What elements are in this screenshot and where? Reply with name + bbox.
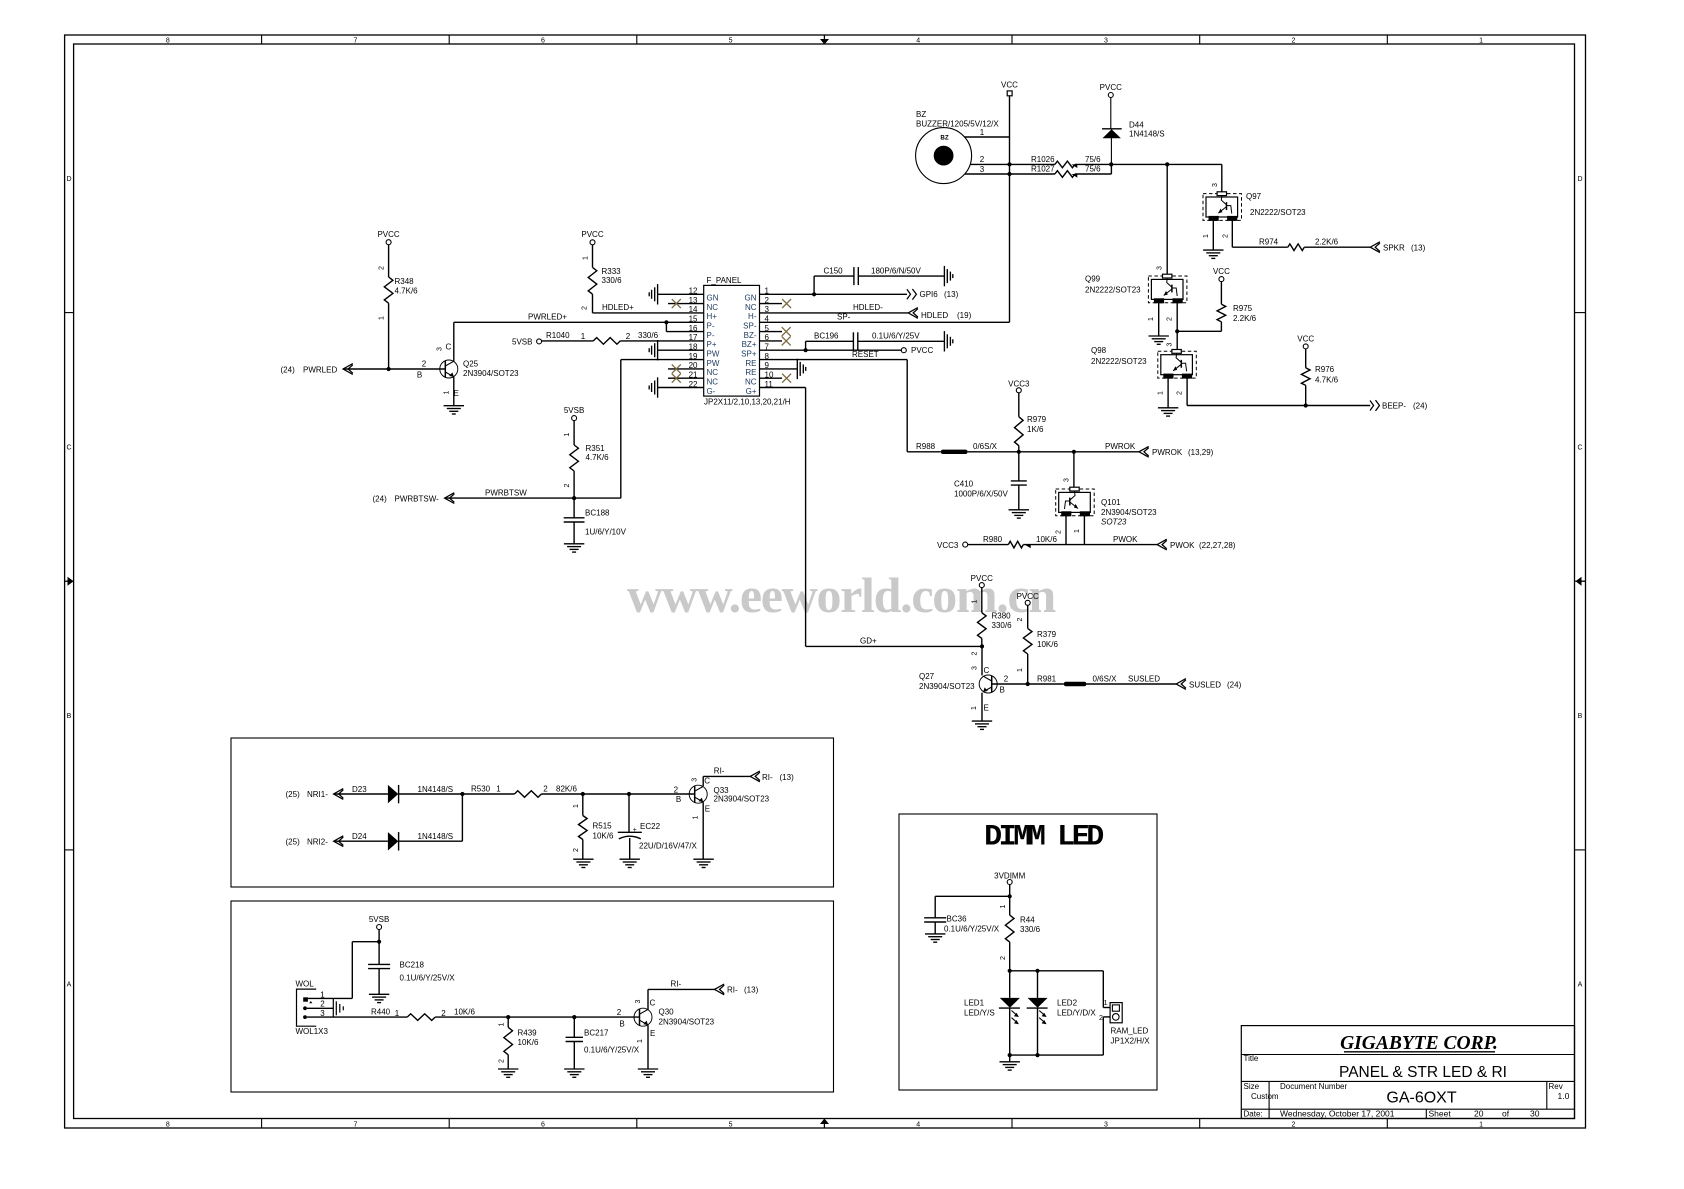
ground C410	[1009, 509, 1029, 511]
power PVCC (D44)	[1100, 83, 1122, 98]
svg-text:R988: R988	[916, 442, 936, 451]
svg-text:4.7K/6: 4.7K/6	[1315, 376, 1339, 385]
ground BC188	[564, 543, 584, 545]
svg-text:22U/D/16V/47/X: 22U/D/16V/47/X	[639, 842, 697, 851]
svg-text:(25): (25)	[286, 837, 301, 846]
junction Q99 collector branch	[1165, 162, 1169, 166]
svg-text:NC: NC	[745, 378, 757, 387]
svg-text:NRI2-: NRI2-	[307, 837, 328, 846]
svg-text:1000P/6/X/50V: 1000P/6/X/50V	[954, 489, 1008, 498]
svg-text:SP+: SP+	[741, 350, 757, 359]
junction buzzer pin3 net	[1007, 172, 1011, 176]
svg-text:Size: Size	[1244, 1082, 1260, 1091]
svg-text:7: 7	[353, 38, 357, 45]
wire 5VSB to BC218	[378, 930, 380, 965]
svg-text:NC: NC	[745, 303, 757, 312]
wire RAM_LED pin2 to LED cathodes	[1010, 1017, 1110, 1055]
port NRI2-	[286, 836, 344, 847]
svg-text:H-: H-	[748, 312, 757, 321]
svg-text:LED2: LED2	[1057, 998, 1078, 1007]
resistor R980	[968, 535, 1085, 548]
capacitor BC188	[564, 509, 627, 544]
svg-text:VCC: VCC	[1213, 267, 1230, 276]
wire SP- pin4	[760, 313, 1010, 323]
svg-text:1: 1	[693, 815, 700, 819]
svg-text:BZ: BZ	[916, 110, 926, 119]
svg-text:1N4148/S: 1N4148/S	[1129, 130, 1165, 139]
svg-text:PWRBTSW-: PWRBTSW-	[395, 494, 440, 503]
svg-text:2: 2	[1004, 674, 1009, 683]
Q99 pin 1 wire to ground	[1148, 303, 1159, 336]
svg-text:EC22: EC22	[640, 822, 661, 831]
svg-text:2N3904/SOT23: 2N3904/SOT23	[659, 1017, 715, 1026]
svg-text:Document Number: Document Number	[1280, 1082, 1347, 1091]
resistor R348	[379, 245, 419, 369]
Q101 pin 1 wire	[1074, 516, 1085, 545]
capacitor C410	[954, 452, 1027, 510]
capacitor BC196	[806, 332, 945, 351]
svg-text:PVCC: PVCC	[971, 574, 993, 583]
svg-text:3: 3	[437, 347, 444, 351]
svg-text:15: 15	[689, 315, 698, 324]
connector F_PANEL JP2X11	[689, 276, 791, 407]
svg-text:2: 2	[1055, 530, 1062, 534]
ground F_PANEL pin12	[657, 284, 659, 304]
Q33 base labels	[674, 786, 681, 804]
junction pin15/pin16	[664, 320, 668, 324]
svg-text:180P/6/N/50V: 180P/6/N/50V	[871, 266, 921, 275]
svg-text:5VSB: 5VSB	[369, 915, 389, 924]
svg-text:C: C	[984, 666, 990, 675]
port RI- (box1)	[750, 771, 794, 782]
svg-text:LED/Y/S: LED/Y/S	[964, 1008, 995, 1017]
power VCC (R976)	[1297, 335, 1314, 349]
svg-text:(19): (19)	[957, 311, 972, 320]
svg-text:1: 1	[379, 316, 386, 320]
svg-text:(24): (24)	[281, 365, 296, 374]
capacitor BC218	[368, 961, 455, 995]
ground BC218	[369, 993, 389, 995]
svg-text:(24): (24)	[373, 494, 388, 503]
svg-text:Title: Title	[1244, 1054, 1259, 1063]
svg-text:(24): (24)	[1413, 401, 1428, 410]
svg-text:2N3904/SOT23: 2N3904/SOT23	[919, 682, 975, 691]
svg-text:10K/6: 10K/6	[1037, 640, 1058, 649]
svg-text:SUSLED: SUSLED	[1189, 680, 1221, 689]
svg-text:0/6S/X: 0/6S/X	[1093, 674, 1118, 683]
svg-text:C: C	[66, 444, 71, 451]
wire G+ pin11 to GD+	[760, 388, 806, 647]
wire Q27 collector	[971, 646, 989, 675]
WOL pin2 wire	[307, 1007, 333, 1009]
svg-text:2N2222/SOT23: 2N2222/SOT23	[1250, 208, 1306, 217]
svg-text:1: 1	[1017, 668, 1024, 672]
Q99 pin 2 wire to Q98 collector	[1166, 303, 1177, 352]
svg-text:3: 3	[692, 778, 699, 782]
svg-text:F_PANEL: F_PANEL	[707, 276, 743, 285]
svg-text:2: 2	[617, 1008, 622, 1017]
transistor Q97	[1203, 192, 1306, 221]
svg-text:RI-: RI-	[727, 986, 738, 995]
transistor Q101	[1056, 487, 1157, 526]
svg-text:BC196: BC196	[814, 332, 839, 341]
wire Q27 emitter	[981, 693, 983, 722]
power PVCC (R379)	[1017, 592, 1039, 606]
svg-text:(13): (13)	[780, 773, 795, 782]
svg-text:1.0: 1.0	[1558, 1091, 1570, 1101]
svg-text:SUSLED: SUSLED	[1128, 674, 1160, 683]
svg-text:1: 1	[1104, 1000, 1108, 1007]
Q101 pin 2 wire	[1055, 516, 1066, 545]
svg-text:G+: G+	[746, 387, 757, 396]
wire VCC to buzzer pin1 and SP- net	[1009, 96, 1011, 322]
svg-text:R379: R379	[1037, 630, 1057, 639]
title block company name	[1340, 1033, 1498, 1054]
svg-text:of: of	[1502, 1109, 1510, 1119]
F_PANEL pin1 wire to GPI6	[760, 293, 908, 295]
svg-text:BZ-: BZ-	[744, 331, 757, 340]
wire Q33 collector RI-	[703, 767, 750, 786]
svg-text:BZ+: BZ+	[742, 340, 757, 349]
port SUSLED	[1176, 679, 1241, 690]
svg-text:2: 2	[1292, 1122, 1296, 1129]
wire PWOK	[1084, 535, 1157, 545]
svg-text:SP-: SP-	[837, 313, 851, 322]
wire Q30 emitter	[647, 1025, 649, 1069]
svg-text:7: 7	[353, 1122, 357, 1129]
svg-text:PWOK: PWOK	[1170, 541, 1195, 550]
svg-text:2N3904/SOT23: 2N3904/SOT23	[1101, 508, 1157, 517]
svg-text:2: 2	[564, 483, 571, 487]
svg-text:4.7K/6: 4.7K/6	[395, 287, 419, 296]
transistor Q98	[1091, 346, 1196, 378]
wire PWRBTSW-	[445, 488, 621, 498]
junction R380 / Q27 collector	[980, 644, 984, 648]
capacitor BC36	[924, 896, 1010, 934]
title block size/doc/rev	[1244, 1082, 1570, 1107]
svg-text:Q97: Q97	[1246, 192, 1262, 201]
svg-text:NC: NC	[707, 368, 719, 377]
svg-text:G-: G-	[707, 387, 716, 396]
svg-text:SPKR: SPKR	[1383, 243, 1405, 252]
svg-text:E: E	[650, 1029, 655, 1038]
svg-text:HDLED+: HDLED+	[602, 303, 634, 312]
svg-text:B: B	[676, 795, 681, 804]
svg-text:2N2222/SOT23: 2N2222/SOT23	[1091, 357, 1147, 366]
junction BC217 branch	[572, 1015, 576, 1019]
svg-text:JP1X2/H/X: JP1X2/H/X	[1111, 1036, 1151, 1045]
svg-text:R974: R974	[1259, 238, 1279, 247]
svg-text:R440: R440	[371, 1008, 391, 1017]
svg-text:PVCC: PVCC	[911, 346, 933, 355]
svg-text:PWRLED+: PWRLED+	[528, 313, 567, 322]
svg-text:2: 2	[1000, 956, 1007, 960]
svg-text:3: 3	[1212, 183, 1219, 187]
svg-text:RESET: RESET	[852, 350, 879, 359]
wire R974 to SPKR	[1304, 246, 1370, 248]
svg-text:2: 2	[499, 1059, 506, 1063]
svg-text:DIMM LED: DIMM LED	[984, 821, 1103, 855]
svg-text:2: 2	[1292, 38, 1296, 45]
Q97 pin 1 wire to ground	[1203, 220, 1214, 250]
svg-text:330/6: 330/6	[1020, 925, 1041, 934]
svg-text:0/6S/X: 0/6S/X	[973, 442, 998, 451]
svg-text:Q33: Q33	[714, 786, 730, 795]
svg-text:RI-: RI-	[671, 980, 682, 989]
svg-text:1: 1	[1074, 529, 1081, 533]
port SPKR	[1370, 242, 1425, 253]
resistor R976	[1301, 349, 1338, 406]
svg-text:RI-: RI-	[762, 773, 773, 782]
power PVCC (R380)	[971, 574, 993, 588]
WOL pin3 wire	[307, 1016, 407, 1018]
F_PANEL pin5 wire no-connect	[760, 327, 791, 336]
svg-text:R380: R380	[992, 612, 1012, 621]
capacitor EC22	[618, 794, 698, 859]
svg-text:E: E	[984, 704, 989, 713]
svg-text:2: 2	[1166, 317, 1173, 321]
svg-text:PWROK: PWROK	[1152, 448, 1183, 457]
svg-text:LED1: LED1	[964, 998, 985, 1007]
svg-text:D: D	[66, 176, 71, 183]
svg-text:1: 1	[980, 128, 985, 137]
junction C150 branch	[812, 292, 816, 296]
wire Q99 collector	[1156, 164, 1167, 276]
svg-text:2: 2	[543, 784, 548, 793]
resistor R988 (0 ohm)	[907, 442, 997, 454]
junction D23/D24	[460, 792, 464, 796]
svg-text:R979: R979	[1027, 415, 1047, 424]
wire HDLED+ to F_PANEL pin14	[593, 303, 704, 313]
svg-text:3: 3	[971, 666, 978, 670]
svg-text:1: 1	[581, 332, 586, 341]
svg-text:R975: R975	[1233, 304, 1253, 313]
power PVCC (pin7)	[901, 346, 933, 355]
resistor R515	[573, 794, 614, 859]
junction Q99 base / R975	[1175, 329, 1179, 333]
F_PANEL pin2 wire no-connect	[760, 299, 792, 308]
power PVCC (R348)	[377, 230, 399, 245]
junction LED2 anode	[1035, 969, 1039, 973]
box DIMM LED	[899, 814, 1157, 1090]
svg-text:2: 2	[573, 848, 580, 852]
port NRI1-	[286, 789, 344, 800]
svg-text:VCC: VCC	[1001, 80, 1018, 89]
svg-text:R980: R980	[983, 535, 1003, 544]
svg-text:4: 4	[916, 38, 920, 45]
svg-text:3: 3	[1104, 38, 1108, 45]
svg-text:330/6: 330/6	[638, 331, 659, 340]
Q98 pin 2 wire to BEEP-	[1176, 378, 1370, 405]
svg-text:R981: R981	[1037, 674, 1057, 683]
svg-text:PWRLED: PWRLED	[303, 365, 337, 374]
ground Q97 emitter	[1203, 249, 1223, 251]
svg-text:1U/6/Y/10V: 1U/6/Y/10V	[585, 527, 627, 536]
LED LED1	[964, 998, 1020, 1055]
svg-text:Wednesday, October 17, 2001: Wednesday, October 17, 2001	[1280, 1109, 1395, 1119]
svg-text:3: 3	[980, 165, 985, 174]
svg-text:R348: R348	[395, 277, 415, 286]
wire GD+	[806, 637, 982, 647]
svg-text:75/6: 75/6	[1085, 165, 1101, 174]
ground Q25 emitter	[444, 405, 464, 407]
diode D24	[352, 794, 462, 851]
svg-text:2: 2	[1176, 391, 1183, 395]
svg-text:LED/Y/D/X: LED/Y/D/X	[1057, 1008, 1096, 1017]
port BEEP-	[1370, 400, 1428, 411]
Q97 pin 2 wire	[1222, 220, 1288, 247]
frame row labels	[66, 176, 1582, 989]
wire LED row to RAM_LED pin1	[1010, 971, 1110, 1008]
svg-text:PW: PW	[707, 350, 720, 359]
power VCC3 (R979)	[1008, 379, 1030, 393]
svg-text:R530: R530	[471, 784, 491, 793]
port RI- (box2)	[715, 984, 759, 995]
svg-text:R976: R976	[1315, 365, 1335, 374]
diode D44	[1102, 98, 1165, 165]
resistor R351	[564, 421, 609, 518]
wire Q101 collector	[1063, 452, 1074, 489]
svg-text:4: 4	[916, 1122, 920, 1129]
svg-text:VCC: VCC	[1297, 335, 1314, 344]
wire Q33 emitter	[702, 802, 704, 859]
frame bottom ticks	[262, 1119, 1388, 1129]
title block frame	[1241, 1026, 1574, 1119]
resistor R380	[971, 588, 1012, 647]
ground F_PANEL pin9	[796, 359, 798, 379]
svg-text:VCC3: VCC3	[1008, 379, 1030, 388]
svg-text:D44: D44	[1129, 121, 1144, 130]
svg-text:3VDIMM: 3VDIMM	[994, 871, 1025, 880]
Q30 base labels	[617, 1008, 625, 1028]
junction BC36 branch	[1008, 894, 1012, 898]
ground Q30 emitter	[638, 1068, 658, 1070]
diode D23	[352, 785, 462, 804]
svg-text:Custom: Custom	[1251, 1092, 1279, 1101]
wire LED1 cathode to ground	[1009, 1055, 1011, 1062]
svg-text:1: 1	[1479, 38, 1483, 45]
svg-text:Q99: Q99	[1085, 275, 1101, 284]
junction LED1 cathode	[1008, 1053, 1012, 1057]
svg-text:8: 8	[166, 1122, 170, 1129]
resistor R1026	[1031, 155, 1101, 168]
power VCC (buzzer)	[1001, 80, 1018, 95]
F_PANEL pin12 wire	[658, 293, 704, 295]
buzzer pin 1 wire	[965, 128, 1010, 137]
svg-text:H+: H+	[707, 312, 718, 321]
svg-text:2N3904/SOT23: 2N3904/SOT23	[714, 795, 770, 804]
svg-text:2: 2	[674, 786, 679, 795]
svg-text:R333: R333	[602, 267, 622, 276]
transistor Q99	[1085, 274, 1187, 303]
resistor R44	[1000, 904, 1041, 997]
resistor R439	[499, 1017, 539, 1069]
port HDLED	[908, 308, 971, 321]
svg-text:C: C	[446, 343, 452, 352]
power 5VSB (WOL)	[369, 915, 389, 930]
power 3VDIMM	[994, 871, 1025, 884]
svg-text:5VSB: 5VSB	[564, 406, 584, 415]
svg-text:8: 8	[166, 38, 170, 45]
wire SUSLED	[1087, 674, 1177, 684]
svg-text:5: 5	[729, 38, 733, 45]
svg-text:0.1U/6/Y/25V/X: 0.1U/6/Y/25V/X	[400, 974, 456, 983]
svg-text:D23: D23	[352, 785, 367, 794]
svg-text:1: 1	[564, 432, 571, 436]
port PWROK	[1139, 446, 1214, 457]
F_PANEL pin20 wire no-connect	[668, 364, 704, 373]
svg-text:SP-: SP-	[743, 322, 757, 331]
svg-text:PWRBTSW: PWRBTSW	[485, 488, 527, 497]
svg-text:1: 1	[971, 706, 978, 710]
box NRI circuit	[231, 738, 834, 887]
svg-text:1N4148/S: 1N4148/S	[418, 832, 454, 841]
svg-text:Q27: Q27	[919, 672, 935, 681]
box WOL circuit	[231, 901, 834, 1092]
ground BC217	[564, 1068, 584, 1070]
capacitor BC217	[566, 1017, 640, 1069]
svg-text:2: 2	[422, 359, 427, 368]
junction R439 branch	[506, 1015, 510, 1019]
svg-text:330/6: 330/6	[992, 621, 1013, 630]
F_PANEL pin13 wire no-connect	[668, 299, 704, 308]
wire HDLED- pin3	[760, 303, 909, 313]
svg-text:Q98: Q98	[1091, 346, 1107, 355]
F_PANEL pin22 wire	[658, 387, 704, 389]
svg-text:RE: RE	[745, 368, 756, 377]
frame side ticks	[65, 313, 1586, 850]
svg-text:BUZZER/1205/5V/12/X: BUZZER/1205/5V/12/X	[916, 120, 999, 129]
junction R515 branch	[581, 792, 585, 796]
svg-text:1: 1	[1157, 391, 1164, 395]
svg-text:(24): (24)	[1227, 680, 1242, 689]
svg-text:R1026: R1026	[1031, 155, 1055, 164]
svg-text:C: C	[650, 999, 656, 1008]
buzzer BZ	[916, 110, 1000, 184]
svg-text:20: 20	[1474, 1109, 1484, 1119]
ground DIMM LED	[1000, 1061, 1020, 1063]
svg-text:C410: C410	[954, 480, 974, 489]
svg-text:Sheet: Sheet	[1429, 1109, 1452, 1119]
wire Q30 collector RI-	[648, 980, 715, 1010]
svg-text:WOL1X3: WOL1X3	[296, 1027, 329, 1036]
svg-text:10K/6: 10K/6	[518, 1038, 539, 1047]
svg-text:RAM_LED: RAM_LED	[1111, 1027, 1149, 1036]
svg-text:GN: GN	[707, 294, 719, 303]
frame top ticks	[262, 35, 1388, 44]
svg-text:82K/6: 82K/6	[556, 784, 577, 793]
svg-text:A: A	[1578, 982, 1583, 989]
svg-text:6: 6	[541, 1122, 545, 1129]
transistor Q25	[437, 343, 520, 399]
ground F_PANEL pin22	[657, 377, 659, 397]
resistor R379	[1017, 605, 1058, 684]
resistor R974	[1259, 238, 1339, 251]
svg-text:5VSB: 5VSB	[512, 337, 532, 346]
svg-text:1N4148/S: 1N4148/S	[418, 785, 454, 794]
wire R1026 output to Q97	[1075, 163, 1222, 165]
resistor R1040	[542, 331, 704, 344]
buzzer pin 2 wire	[970, 155, 1055, 164]
ground F_PANEL pin18	[657, 340, 659, 360]
svg-text:R439: R439	[518, 1029, 538, 1038]
svg-text:2: 2	[980, 155, 985, 164]
svg-text:BC36: BC36	[947, 915, 968, 924]
ground Q27 emitter	[972, 720, 992, 722]
svg-text:NC: NC	[707, 378, 719, 387]
svg-text:BC217: BC217	[584, 1028, 609, 1037]
svg-text:1: 1	[1203, 234, 1210, 238]
